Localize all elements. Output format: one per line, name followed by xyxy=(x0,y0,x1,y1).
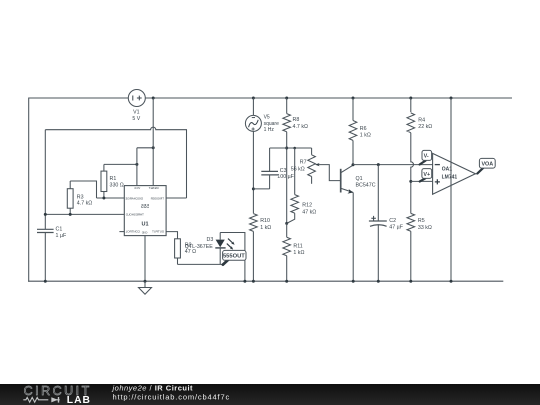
svg-text:555OUT: 555OUT xyxy=(223,254,245,260)
svg-text:johnye2e / IR Circuit: johnye2e / IR Circuit xyxy=(112,384,194,392)
resistor R3 xyxy=(69,181,71,189)
resistor R4 xyxy=(410,98,412,112)
junction gnd at rail xyxy=(144,280,147,283)
svg-text:V+: V+ xyxy=(423,172,430,178)
wire collector to op-amp inverting input xyxy=(353,164,433,166)
wire R3 top over to discharge corner xyxy=(70,181,96,198)
svg-text:R1: R1 xyxy=(110,176,117,182)
svg-text:V5: V5 xyxy=(264,115,270,121)
junction VCC tie on reset vertical xyxy=(152,146,155,149)
wire trigger vertical xyxy=(186,129,188,198)
junction R11 at rail xyxy=(285,280,288,283)
junction R12 tap xyxy=(293,147,296,150)
wire V5 top stub xyxy=(252,98,254,115)
wire R10 to rail xyxy=(252,231,254,281)
junction top rail to R4 xyxy=(409,97,412,100)
wire plus input xyxy=(411,180,433,182)
footer bar xyxy=(0,384,540,405)
svg-text:RESET: RESET xyxy=(148,186,158,190)
wire reset/supply vertical xyxy=(152,98,154,186)
svg-text:V-: V- xyxy=(424,154,429,160)
svg-text:22 kΩ: 22 kΩ xyxy=(418,124,432,130)
junction LED loop at rail xyxy=(243,280,246,283)
resistor R10 xyxy=(250,214,258,232)
svg-text:LM741: LM741 xyxy=(442,175,458,181)
svg-text:V1: V1 xyxy=(133,110,139,116)
wire output pin xyxy=(166,232,177,239)
wire trigger horizontal xyxy=(166,197,186,199)
junction top rail to R6 xyxy=(352,97,355,100)
svg-text:R11: R11 xyxy=(293,243,302,249)
op-amp OA1 xyxy=(433,153,476,194)
wire inner box top with hop xyxy=(45,127,186,130)
wire LED anode loop xyxy=(220,233,245,282)
wire R7 wiper to Q1 base xyxy=(317,165,340,181)
capacitor C3 xyxy=(269,148,271,171)
wire V5 to R10 xyxy=(252,131,254,213)
resistor R6 xyxy=(352,98,354,121)
svg-text:C2: C2 xyxy=(389,218,396,224)
junction node B xyxy=(285,222,288,225)
wire R4 to hop over inverting wire xyxy=(411,133,414,214)
resistor R1 xyxy=(103,164,105,171)
svg-text:1 kΩ: 1 kΩ xyxy=(360,133,371,139)
svg-text:4.7 kΩ: 4.7 kΩ xyxy=(293,124,308,130)
svg-text:56 kΩ: 56 kΩ xyxy=(291,167,305,173)
resistor R2 xyxy=(175,239,181,258)
svg-text:330 Ω: 330 Ω xyxy=(110,182,124,188)
wire R1 top to VCC xyxy=(104,163,137,165)
wire GND pin to rail xyxy=(144,236,146,282)
wire C1 branch vertical upper xyxy=(44,130,46,230)
svg-text:R7: R7 xyxy=(300,159,307,165)
net flag V+ xyxy=(420,178,426,181)
ground symbol xyxy=(144,281,146,287)
potentiometer R7 xyxy=(311,148,313,155)
svg-text:U1: U1 xyxy=(141,222,148,228)
voltage source V1 xyxy=(128,90,145,107)
junction R1 bottom on discharge wire xyxy=(102,197,105,200)
junction C3 return on V5 branch xyxy=(252,187,255,190)
transistor Q1 xyxy=(340,169,342,193)
svg-text:http://circuitlab.com/cb44f7c: http://circuitlab.com/cb44f7c xyxy=(113,393,231,402)
svg-text:R8: R8 xyxy=(293,117,300,123)
junction R5 at rail xyxy=(409,280,412,283)
junction C2 at rail xyxy=(377,280,380,283)
op-amp U1 IC body 555 xyxy=(124,186,166,236)
svg-text:100 µF: 100 µF xyxy=(277,174,294,180)
junction top rail to U1 supply xyxy=(152,97,155,100)
net flag 555OUT xyxy=(223,259,229,264)
wire VCC pin vertical xyxy=(136,148,138,186)
capacitor C2 xyxy=(377,165,379,221)
svg-text:47 kΩ: 47 kΩ xyxy=(302,209,316,215)
wire Q1 emitter to rail xyxy=(352,192,354,281)
wire left outer vertical xyxy=(28,98,30,282)
wire mid vertical through op-amp xyxy=(450,98,452,281)
junction node A xyxy=(285,147,288,150)
net flag V- xyxy=(420,161,426,165)
junction C2 tap xyxy=(377,163,380,166)
svg-text:1 kΩ: 1 kΩ xyxy=(293,250,304,256)
junction R3 bottom on threshold wire xyxy=(69,213,72,216)
logo schematic squiggle xyxy=(23,397,59,402)
svg-text:C1: C1 xyxy=(56,227,63,233)
svg-text:VOA: VOA xyxy=(481,162,493,168)
junction top rail to R8 xyxy=(285,97,288,100)
capacitor C1 xyxy=(37,228,54,230)
svg-text:QTL-367EE: QTL-367EE xyxy=(185,244,213,250)
resistor R8 xyxy=(286,98,288,114)
svg-text:LAB: LAB xyxy=(67,395,91,405)
svg-text:1 Hz: 1 Hz xyxy=(264,127,275,133)
svg-text:R4: R4 xyxy=(418,117,425,123)
voltage source V5 xyxy=(245,115,261,131)
logo diode xyxy=(51,397,58,402)
wire node A horizontal xyxy=(270,147,312,149)
svg-text:OUTPUT: OUTPUT xyxy=(152,230,164,234)
wire discharge horizontal xyxy=(97,197,125,199)
svg-text:R12: R12 xyxy=(302,202,312,208)
svg-text:R3: R3 xyxy=(77,194,84,200)
svg-text:D3: D3 xyxy=(207,237,214,243)
junction R1 wire at VCC vertical xyxy=(135,163,138,166)
svg-text:BC547C: BC547C xyxy=(356,183,376,189)
svg-text:1 kΩ: 1 kΩ xyxy=(260,225,271,231)
LED D3 xyxy=(219,248,221,264)
svg-text:Q1: Q1 xyxy=(356,176,363,182)
wire control stub xyxy=(119,231,124,233)
wire top rail left segment xyxy=(29,97,129,99)
svg-text:square: square xyxy=(264,121,280,127)
svg-text:THRESHOLD: THRESHOLD xyxy=(126,213,144,217)
resistor R12 xyxy=(294,148,296,195)
net flag VOA xyxy=(477,168,483,174)
svg-text:1 µF: 1 µF xyxy=(56,233,67,239)
junction top rail to V5 xyxy=(252,97,255,100)
svg-text:GND: GND xyxy=(142,232,148,235)
svg-text:5 V: 5 V xyxy=(132,116,140,122)
svg-text:4.7 kΩ: 4.7 kΩ xyxy=(77,201,92,207)
junction V5 branch at rail xyxy=(252,280,255,283)
svg-text:R10: R10 xyxy=(260,218,270,224)
wire VCC to reset tie xyxy=(137,147,153,149)
LED arrows xyxy=(228,239,232,243)
resistor R5 xyxy=(407,213,415,231)
svg-text:R6: R6 xyxy=(360,126,367,132)
svg-text:VCC: VCC xyxy=(133,186,140,190)
junction top rail right wire xyxy=(450,97,453,100)
junction threshold at C1 branch xyxy=(44,213,47,216)
junction divider to op-amp plus xyxy=(409,180,412,183)
junction C1 at ground rail xyxy=(44,280,47,283)
svg-text:C3: C3 xyxy=(280,168,287,174)
svg-text:DISCHARGE: DISCHARGE xyxy=(125,196,143,200)
svg-text:555: 555 xyxy=(141,204,150,210)
svg-text:CONTROL: CONTROL xyxy=(125,230,140,234)
svg-text:33 kΩ: 33 kΩ xyxy=(418,225,432,231)
svg-text:47 µF: 47 µF xyxy=(389,225,403,231)
wire top rail right segment xyxy=(145,97,512,99)
resistor R11 xyxy=(286,223,288,237)
junction emitter at rail xyxy=(352,280,355,283)
wire op-amp output stub xyxy=(475,173,478,175)
svg-text:R5: R5 xyxy=(418,218,425,224)
junction mid wire at rail xyxy=(450,280,453,283)
wire R2 bottom to LED cathode xyxy=(178,263,225,265)
wire bottom ground rail xyxy=(28,280,503,282)
wire threshold horizontal xyxy=(45,213,124,215)
junction collector node xyxy=(352,163,355,166)
svg-text:TRIGGER: TRIGGER xyxy=(151,196,164,200)
